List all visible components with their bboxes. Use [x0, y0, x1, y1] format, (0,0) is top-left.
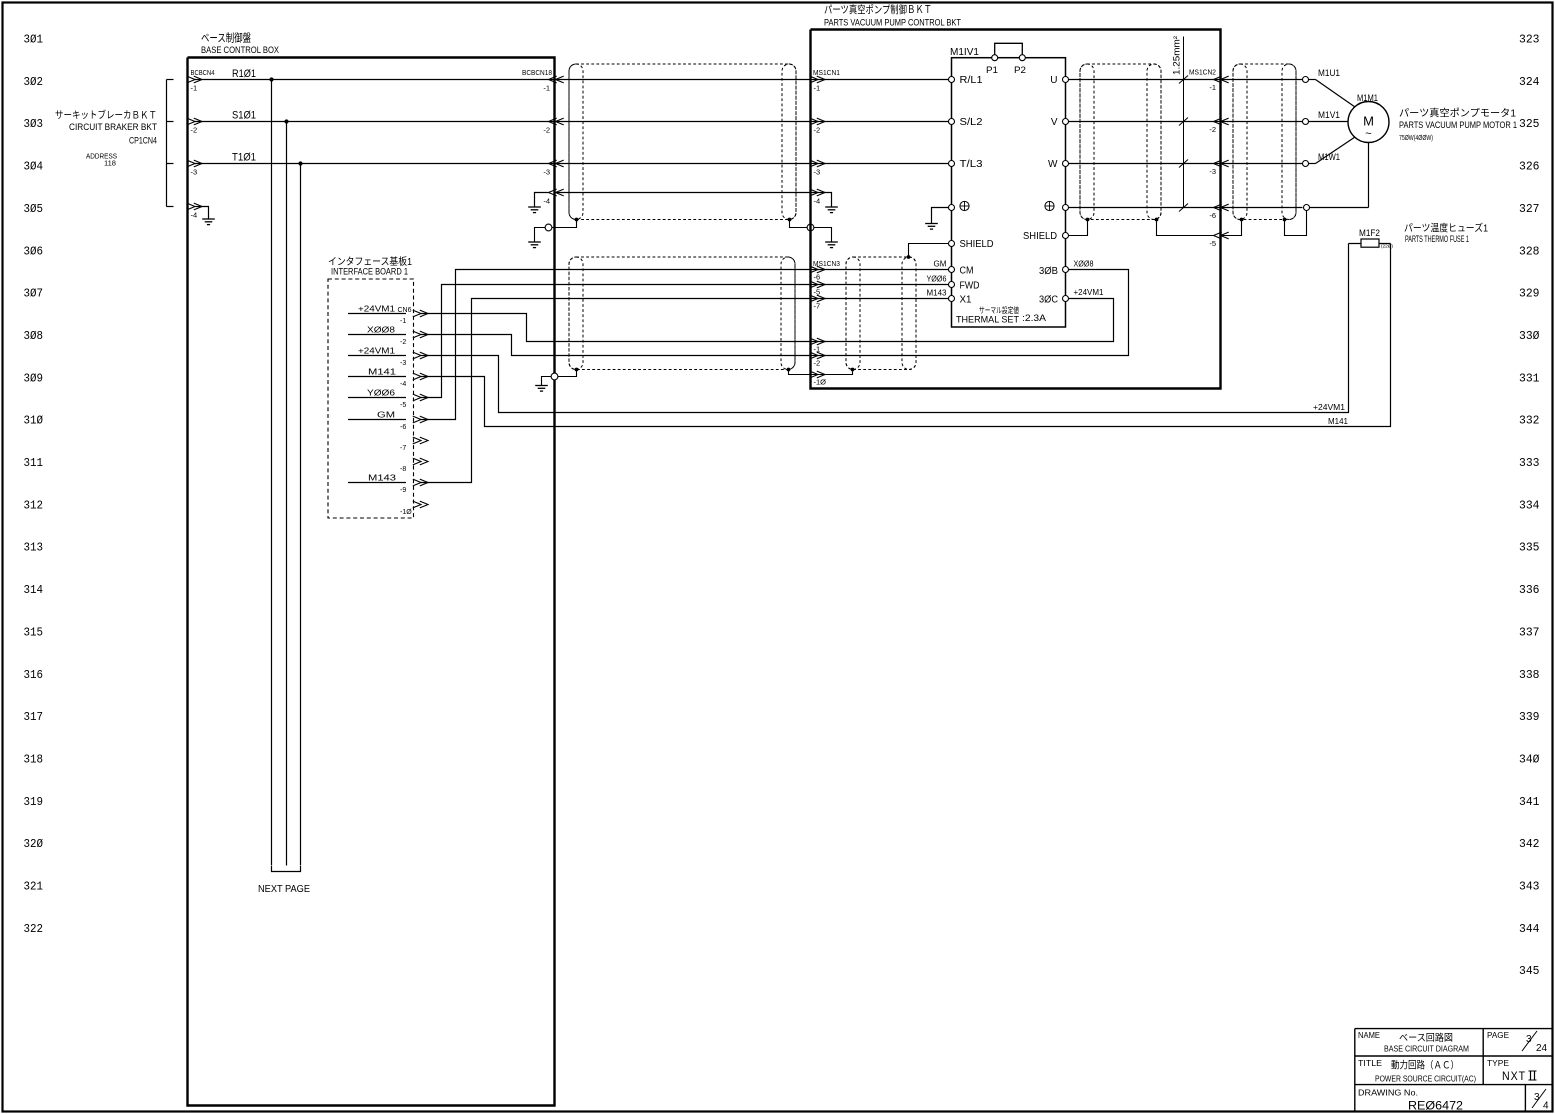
svg-text:-2: -2	[543, 126, 550, 135]
wire T101 to next page	[300, 164, 302, 866]
svg-text:NXT: NXT	[1502, 1071, 1526, 1083]
wire R101	[195, 68, 555, 80]
svg-text:M143: M143	[368, 474, 397, 483]
motor M1M1	[1348, 93, 1389, 143]
svg-text:-4: -4	[543, 197, 550, 206]
svg-text:336: 336	[1519, 583, 1540, 597]
short cable shield drain to MS1CN3-10	[811, 368, 854, 375]
connector BCBCN4	[187, 68, 215, 220]
svg-text:3ØC: 3ØC	[1039, 295, 1058, 306]
svg-text:-2: -2	[191, 126, 198, 135]
svg-text:24: 24	[1536, 1043, 1548, 1054]
svg-text:321: 321	[24, 880, 44, 894]
inverter left PE ground	[925, 208, 948, 230]
svg-text:+24VM1: +24VM1	[1313, 403, 1346, 412]
wire +24VM1 CN6-3 to thermo fuse	[421, 244, 1349, 413]
svg-text:CIRCUIT BRAKER BKT: CIRCUIT BRAKER BKT	[69, 122, 157, 133]
svg-text:327: 327	[1519, 202, 1540, 216]
svg-text:REØ6472: REØ6472	[1408, 1099, 1463, 1113]
svg-text:75ØW(4ØØW): 75ØW(4ØØW)	[1399, 135, 1433, 142]
svg-text:POWER SOURCE CIRCUIT(AC): POWER SOURCE CIRCUIT(AC)	[1375, 1074, 1476, 1084]
svg-text:3ØB: 3ØB	[1039, 266, 1058, 277]
svg-text:339: 339	[1519, 710, 1540, 724]
svg-text:334: 334	[1519, 498, 1540, 512]
svg-text:BASE CIRCUIT DIAGRAM: BASE CIRCUIT DIAGRAM	[1384, 1044, 1469, 1054]
svg-text:X1: X1	[960, 295, 972, 306]
control cable shield drain to MS1CN3-10	[787, 368, 811, 375]
wires inverter U/V/W to MS1CN2	[1069, 80, 1221, 164]
svg-text:32Ø: 32Ø	[24, 837, 44, 851]
svg-text:+24VM1: +24VM1	[358, 305, 396, 314]
svg-text:GM: GM	[377, 411, 395, 420]
left margin row numbers 301-322	[24, 33, 44, 936]
motor terminal M1V1	[1303, 110, 1349, 125]
svg-text:サーキットブレーカＢＫＴ: サーキットブレーカＢＫＴ	[55, 109, 157, 122]
svg-text:SHIELD: SHIELD	[1023, 231, 1057, 242]
P1-P2 jumper	[986, 43, 1026, 75]
svg-text:DRAWING No.: DRAWING No.	[1358, 1089, 1418, 1098]
svg-text:3Ø4: 3Ø4	[24, 160, 44, 174]
svg-text:GM: GM	[934, 260, 947, 269]
svg-text:MS1CN2: MS1CN2	[1189, 70, 1216, 77]
wire GM to CM	[811, 260, 949, 270]
node S101 tap junction	[284, 119, 288, 123]
svg-text:3Ø9: 3Ø9	[24, 371, 44, 385]
svg-text:34Ø: 34Ø	[1519, 752, 1540, 766]
CN6 signal stub wires with labels	[348, 305, 406, 483]
wire X008 MS1CN3-2 to 30B	[811, 270, 1129, 356]
svg-text:-1: -1	[543, 84, 550, 93]
svg-text:SHIELD: SHIELD	[960, 239, 994, 250]
svg-text:TYPE: TYPE	[1487, 1059, 1509, 1068]
svg-text:M: M	[1363, 114, 1374, 129]
svg-text:-9: -9	[400, 487, 406, 494]
cable E wires to motor terminals	[1221, 80, 1303, 208]
svg-text:1.25mm²: 1.25mm²	[1172, 36, 1182, 75]
svg-text:ベース制御盤: ベース制御盤	[201, 31, 251, 45]
svg-text:動力回路（ＡＣ）: 動力回路（ＡＣ）	[1391, 1059, 1459, 1072]
wire gauge marker 1.25mm2	[1172, 36, 1189, 212]
svg-text:YØØ6: YØØ6	[367, 389, 396, 398]
svg-text:3Ø6: 3Ø6	[24, 244, 44, 258]
node T101 tap junction	[298, 161, 302, 165]
svg-text:-1: -1	[814, 84, 821, 93]
svg-text:-1: -1	[191, 84, 198, 93]
base control box ベース制御盤	[188, 31, 555, 1106]
svg-text:-6: -6	[1209, 211, 1216, 220]
cable MS1CN3 to inverter (short shield)	[846, 257, 916, 370]
node R101 tap junction	[269, 77, 273, 81]
svg-text:-2: -2	[400, 339, 406, 346]
svg-text:TITLE: TITLE	[1358, 1059, 1382, 1068]
svg-text:YØØ6: YØØ6	[927, 275, 947, 284]
wire inverter PE to MS1CN2-6	[1069, 207, 1221, 209]
svg-text:312: 312	[24, 498, 44, 512]
svg-text:33Ø: 33Ø	[1519, 329, 1540, 343]
svg-text:332: 332	[1519, 414, 1540, 428]
inverter left terminals	[949, 75, 994, 305]
ground at BCBCN4-4	[196, 207, 215, 225]
svg-text:PARTS VACUUM PUMP MOTOR 1: PARTS VACUUM PUMP MOTOR 1	[1399, 120, 1517, 130]
svg-text:3Ø3: 3Ø3	[24, 117, 44, 131]
svg-text:323: 323	[1519, 33, 1540, 47]
svg-text:S1Ø1: S1Ø1	[232, 110, 256, 122]
svg-text:-2: -2	[814, 126, 821, 135]
svg-text:ADDRESS: ADDRESS	[86, 154, 117, 161]
svg-text:FWD: FWD	[960, 281, 980, 292]
circuit breaker BKT labels	[55, 109, 157, 168]
svg-text:-1Ø: -1Ø	[814, 378, 827, 387]
cable D shield drain to MS1CN2-5	[1155, 218, 1214, 236]
svg-text:3Ø7: 3Ø7	[24, 287, 44, 301]
svg-text:318: 318	[24, 752, 44, 766]
svg-text:342: 342	[1519, 837, 1540, 851]
svg-text:MS1CN3: MS1CN3	[813, 261, 840, 268]
svg-text:R/L1: R/L1	[960, 75, 983, 86]
svg-text:M1M1: M1M1	[1357, 93, 1378, 104]
thermo fuse labels	[1404, 222, 1488, 245]
wire +24VM1 MS1CN3-1 to 30C	[811, 299, 1114, 342]
svg-text:-2: -2	[1209, 125, 1216, 134]
svg-text:+24VM1: +24VM1	[358, 347, 396, 356]
shield drain left to ground	[528, 218, 578, 248]
svg-text:サーマル設定値: サーマル設定値	[979, 305, 1019, 315]
svg-text:328: 328	[1519, 244, 1540, 258]
svg-text:118: 118	[104, 161, 116, 168]
svg-text:325: 325	[1519, 117, 1540, 131]
thermal set label	[956, 305, 1047, 326]
svg-text:W: W	[1048, 159, 1058, 170]
wire X008 CN6-2 to MS1CN3-2	[421, 335, 811, 356]
cable D shield drain to inverter SHIELD	[1069, 218, 1090, 236]
wire S101	[195, 110, 555, 122]
svg-text:-3: -3	[1209, 167, 1216, 176]
svg-text:341: 341	[1519, 795, 1540, 809]
wire R101 to next page	[271, 80, 273, 866]
svg-text:-4: -4	[400, 381, 406, 388]
svg-text:M141: M141	[1328, 417, 1349, 426]
svg-text:V: V	[1051, 117, 1058, 128]
svg-text:T/L3: T/L3	[960, 159, 983, 170]
svg-text:P1: P1	[986, 65, 998, 75]
svg-text:-3: -3	[543, 168, 550, 177]
svg-text:333: 333	[1519, 456, 1540, 470]
svg-text:314: 314	[24, 583, 44, 597]
motor cable E shield	[1233, 64, 1296, 220]
svg-text:-6: -6	[814, 273, 821, 282]
inverter right PE symbol	[1045, 201, 1054, 210]
connector MS1CN2	[1189, 70, 1229, 249]
svg-text:-3: -3	[191, 168, 198, 177]
svg-text:-1: -1	[400, 318, 406, 325]
svg-text:319: 319	[24, 795, 44, 809]
svg-text:XØØ8: XØØ8	[1074, 260, 1094, 269]
wire T101	[195, 152, 555, 164]
svg-text:-4: -4	[814, 197, 821, 206]
svg-text:~: ~	[1365, 128, 1371, 140]
svg-text:322: 322	[24, 922, 44, 936]
svg-text:313: 313	[24, 541, 44, 555]
svg-text:324: 324	[1519, 75, 1540, 89]
inverter shield cable D	[1080, 64, 1161, 220]
svg-text:M1IV1: M1IV1	[950, 47, 979, 58]
connector BCBCN18	[522, 68, 564, 206]
ground at MS1CN1-4	[811, 193, 838, 213]
svg-text:パーツ温度ヒューズ1: パーツ温度ヒューズ1	[1404, 222, 1488, 235]
cable E shield drain to MS1CN2-5	[1221, 218, 1244, 236]
svg-text:S/L2: S/L2	[960, 117, 983, 128]
motor terminal M1U1	[1303, 68, 1356, 107]
connector CN6	[398, 307, 429, 516]
svg-text:パーツ真空ポンプモータ1: パーツ真空ポンプモータ1	[1399, 107, 1516, 120]
power cable shield BCBCN18-MS1CN1	[569, 64, 796, 220]
control cable shield CN6-MS1CN3	[569, 257, 795, 370]
svg-text:U: U	[1050, 75, 1057, 86]
svg-text:31Ø: 31Ø	[24, 414, 44, 428]
svg-text:-5: -5	[400, 402, 406, 409]
svg-text:329: 329	[1519, 287, 1540, 301]
wire +24VM1 CN6-1 to MS1CN3-1	[421, 314, 811, 342]
wire Y006 CN6-5 to MS1CN3-5	[421, 285, 811, 398]
svg-text:INTERFACE BOARD 1: INTERFACE BOARD 1	[331, 267, 408, 277]
wire S101 to next page	[286, 122, 288, 866]
next page bracket	[258, 866, 310, 895]
svg-text:+24VM1: +24VM1	[1074, 288, 1105, 297]
svg-text:337: 337	[1519, 625, 1540, 639]
svg-text:3Ø1: 3Ø1	[24, 33, 44, 47]
svg-text:T1Ø1: T1Ø1	[232, 152, 256, 164]
svg-text:-6: -6	[400, 424, 406, 431]
svg-text:M1F2: M1F2	[1359, 228, 1380, 239]
interface board 1 インタフェース基板1	[328, 255, 414, 518]
svg-text::2.3A: :2.3A	[1022, 313, 1047, 324]
wires MS1CN1 to inverter R/S/T	[811, 80, 949, 164]
svg-text:M141: M141	[368, 368, 397, 377]
svg-text:NAME: NAME	[1358, 1031, 1380, 1040]
inverter M1IV1 box	[950, 47, 1066, 327]
svg-text:311: 311	[24, 456, 44, 470]
svg-text:-3: -3	[814, 168, 821, 177]
svg-text:THERMAL SET: THERMAL SET	[956, 315, 1019, 326]
ground at BCBCN18-4	[528, 193, 548, 213]
motor name labels	[1399, 107, 1517, 143]
shield drain right to ground	[788, 218, 838, 248]
inverter right terminals	[1023, 75, 1069, 305]
svg-text:-3: -3	[400, 360, 406, 367]
svg-text:-4: -4	[191, 211, 198, 220]
thermo fuse M1F2	[1349, 228, 1394, 249]
svg-text:P2: P2	[1014, 65, 1026, 75]
inverter left PE symbol	[960, 201, 969, 210]
svg-text:344: 344	[1519, 922, 1540, 936]
power cable wires -1..-4	[555, 80, 811, 193]
svg-text:317: 317	[24, 710, 44, 724]
connector MS1CN3	[810, 261, 840, 387]
svg-text:315: 315	[24, 625, 44, 639]
svg-text:PARTS THERMO FUSE 1: PARTS THERMO FUSE 1	[1405, 234, 1469, 244]
svg-text:M143: M143	[927, 289, 948, 298]
svg-text:M1W1: M1W1	[1318, 152, 1340, 163]
svg-text:345: 345	[1519, 964, 1540, 978]
svg-text:326: 326	[1519, 160, 1540, 174]
title block	[1355, 1029, 1552, 1113]
svg-text:3Ø5: 3Ø5	[24, 202, 44, 216]
svg-text:CM: CM	[960, 266, 974, 277]
wire GM CN6-6 to MS1CN3-6	[421, 270, 811, 420]
right margin row numbers 323-345	[1519, 33, 1540, 979]
breaker cable bracket	[167, 80, 174, 207]
svg-text:338: 338	[1519, 668, 1540, 682]
svg-text:331: 331	[1519, 371, 1540, 385]
svg-text:CP1CN4: CP1CN4	[129, 136, 157, 147]
svg-text:316: 316	[24, 668, 44, 682]
svg-text:M1V1: M1V1	[1318, 110, 1340, 121]
svg-text:-7: -7	[814, 302, 821, 311]
wire M143 to X1	[811, 289, 949, 299]
svg-text:PAGE: PAGE	[1487, 1031, 1509, 1040]
svg-text:335: 335	[1519, 541, 1540, 555]
svg-text:PARTS VACUUM PUMP CONTROL BKT: PARTS VACUUM PUMP CONTROL BKT	[824, 18, 961, 29]
svg-text:-5: -5	[1209, 239, 1216, 248]
svg-text:3Ø8: 3Ø8	[24, 329, 44, 343]
svg-text:(22Ø): (22Ø)	[1381, 244, 1394, 249]
svg-text:パーツ真空ポンプ制御ＢＫＴ: パーツ真空ポンプ制御ＢＫＴ	[824, 3, 932, 16]
wire M143 CN6-9 to MS1CN3-7	[421, 299, 811, 483]
svg-text:BCBCN18: BCBCN18	[522, 68, 552, 77]
motor ground terminal	[1304, 143, 1369, 211]
svg-text:-1Ø: -1Ø	[400, 509, 412, 516]
svg-text:R1Ø1: R1Ø1	[232, 68, 256, 80]
svg-text:-8: -8	[400, 466, 406, 473]
control cable shield drain to base box ground	[535, 368, 578, 392]
svg-text:NEXT PAGE: NEXT PAGE	[258, 884, 310, 895]
short cable shield drain to inverter SHIELD	[907, 244, 949, 259]
cable E shield drain to motor ground terminal	[1283, 211, 1307, 236]
wire M141 CN6-4 to thermo fuse	[421, 244, 1391, 427]
wire Y006 to FWD	[811, 275, 949, 285]
connector MS1CN1	[810, 70, 840, 206]
svg-text:-1: -1	[1209, 83, 1216, 92]
svg-text:4: 4	[1543, 1101, 1549, 1112]
svg-text:343: 343	[1519, 880, 1540, 894]
svg-text:BASE CONTROL BOX: BASE CONTROL BOX	[201, 45, 280, 56]
svg-text:3Ø2: 3Ø2	[24, 75, 44, 89]
svg-text:M1U1: M1U1	[1318, 68, 1340, 79]
parts vacuum pump control BKT box	[811, 3, 1221, 389]
svg-text:-7: -7	[400, 445, 406, 452]
svg-text:-2: -2	[814, 359, 821, 368]
motor terminal M1W1	[1303, 137, 1356, 167]
svg-text:ベース回路図: ベース回路図	[1399, 1032, 1453, 1044]
svg-text:XØØ8: XØØ8	[367, 326, 396, 335]
